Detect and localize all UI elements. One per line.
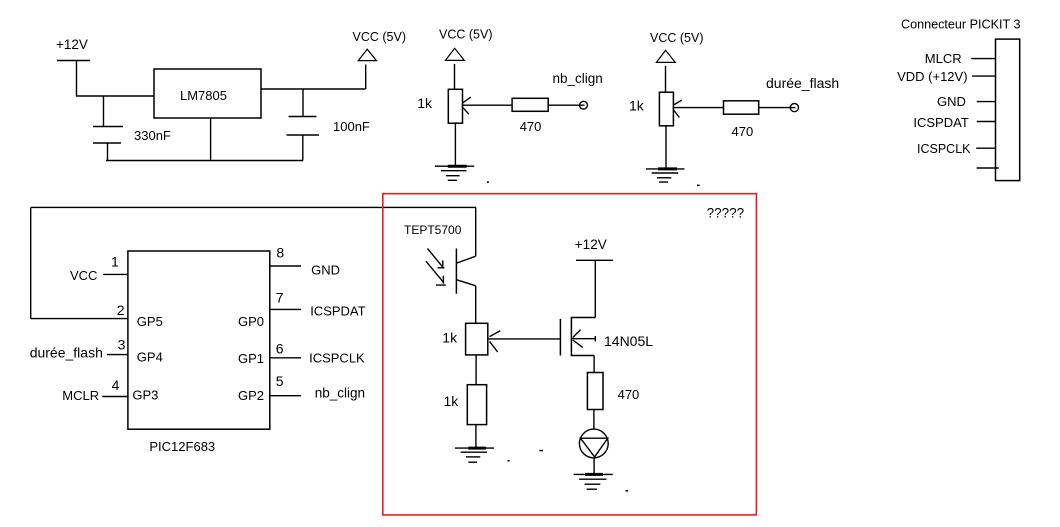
- ground symbol R6: [455, 448, 494, 462]
- R3 wiper arrow barb lower: [674, 110, 680, 118]
- R5 wiper arrow barb upper: [490, 331, 501, 337]
- svg-text:nb_clign: nb_clign: [315, 386, 365, 401]
- Q2 drain stub: [571, 317, 595, 319]
- svg-text:GND: GND: [937, 94, 966, 109]
- svg-text:GP5: GP5: [137, 314, 163, 329]
- transistor Q1 collector diagonal: [457, 256, 476, 263]
- svg-text:MLCR: MLCR: [925, 51, 962, 66]
- transistor Q2 gate bar: [559, 319, 561, 356]
- light arrow 1 head: [438, 260, 445, 268]
- LED D1 circle: [579, 429, 608, 458]
- pin VDD stub: [972, 75, 995, 77]
- wire pin2 GP5: [31, 318, 128, 320]
- capacitor C2 100nF bottom plate: [287, 134, 320, 136]
- svg-text:470: 470: [520, 119, 542, 134]
- svg-text:330nF: 330nF: [134, 128, 171, 143]
- svg-text:5: 5: [276, 373, 284, 389]
- resistor R7 470: [587, 373, 603, 410]
- svg-text:1k: 1k: [442, 330, 458, 346]
- wire R3 wiper to R4: [673, 107, 724, 109]
- svg-text:1k: 1k: [417, 95, 433, 111]
- transistor Q1 base bar: [455, 249, 457, 294]
- svg-text:MCLR: MCLR: [62, 388, 99, 403]
- pin ICSPDAT stub: [977, 121, 996, 123]
- svg-text:3: 3: [118, 337, 126, 353]
- svg-text:GND: GND: [311, 263, 340, 278]
- IC U1 PIC12F683 box: [128, 251, 270, 429]
- stray dot pot2: [697, 185, 700, 186]
- potentiometer R1 1k body: [448, 89, 462, 123]
- R1 wiper arrow barb upper: [463, 97, 471, 103]
- svg-text:GP1: GP1: [238, 351, 264, 366]
- wire VCC to R3: [665, 66, 667, 92]
- svg-text:ICSPDAT: ICSPDAT: [913, 115, 968, 130]
- svg-text:VCC (5V): VCC (5V): [439, 27, 492, 41]
- stray dot pot1: [487, 181, 489, 183]
- pin MLCR stub: [971, 58, 995, 60]
- pin 6 stub: [269, 357, 301, 359]
- pin 6 stub unlabeled: [977, 167, 999, 169]
- power symbol VCC triangle 3: [656, 50, 675, 62]
- wire VCC rail left vertical: [30, 207, 32, 318]
- pin 8 stub: [269, 265, 301, 267]
- wire VCC to R1: [454, 64, 456, 89]
- svg-text:GP4: GP4: [137, 350, 163, 365]
- svg-text:1k: 1k: [629, 97, 645, 113]
- svg-text:VCC: VCC: [70, 268, 97, 283]
- wire LED to ground: [593, 458, 595, 474]
- regulator U2 LM7805 box: [154, 69, 261, 118]
- svg-text:7: 7: [276, 290, 284, 306]
- wire R5 wiper to Q2 gate: [489, 338, 561, 340]
- wire +12V down: [76, 61, 78, 97]
- terminal duree_flash circle: [790, 104, 798, 112]
- ground rail wire: [106, 160, 303, 162]
- ground symbol pot2: [646, 169, 685, 182]
- capacitor C2 100nF top plate: [289, 116, 317, 118]
- wire C1 to ground rail: [107, 143, 109, 161]
- capacitor C1 330nF top plate: [93, 126, 123, 128]
- Q2 source stub: [571, 355, 594, 357]
- svg-text:470: 470: [618, 387, 640, 402]
- svg-text:ICSPCLK: ICSPCLK: [309, 351, 365, 366]
- stray dot gnd R6 a: [507, 460, 509, 462]
- connector J1 PICKIT3 box: [996, 39, 1020, 181]
- light arrow 2 head: [436, 276, 446, 285]
- pin 3 stub: [107, 354, 128, 356]
- svg-text:VCC (5V): VCC (5V): [650, 31, 703, 45]
- svg-text:?????: ?????: [707, 206, 745, 221]
- svg-text:100nF: 100nF: [333, 119, 370, 134]
- svg-text:14N05L: 14N05L: [604, 333, 653, 349]
- stray dot gnd LED: [626, 490, 629, 492]
- wire VCC rail top: [31, 206, 476, 208]
- LED D1 triangle: [581, 438, 608, 457]
- pin ICSPCLK stub: [976, 147, 995, 149]
- R5 wiper arrow barb lower: [490, 341, 498, 352]
- potentiometer R5 1k body: [466, 323, 488, 355]
- pin 4 stub: [102, 396, 128, 398]
- transistor Q2 channel bar: [570, 317, 572, 356]
- terminal nb_clign circle: [580, 101, 588, 109]
- power symbol VCC triangle 2: [445, 48, 464, 60]
- pin 1 stub: [103, 273, 128, 275]
- svg-text:1: 1: [111, 254, 119, 270]
- wire junction to C2: [302, 89, 304, 116]
- pin GND stub: [977, 101, 996, 103]
- wire R4 to terminal: [759, 107, 796, 109]
- wire LM7805 gnd pin: [210, 118, 212, 161]
- wire R3 to ground: [665, 126, 667, 169]
- svg-text:PIC12F683: PIC12F683: [149, 439, 215, 454]
- svg-text:GP3: GP3: [132, 388, 158, 403]
- wire Q2 drain vertical: [594, 260, 596, 317]
- svg-text:durée_flash: durée_flash: [766, 75, 839, 91]
- svg-text:nb_clign: nb_clign: [553, 71, 603, 86]
- light arrow 2 shaft: [426, 261, 444, 283]
- wire input node to LM7805: [76, 95, 154, 97]
- resistor R6 1k: [467, 385, 486, 425]
- transistor Q1 emitter diagonal: [457, 280, 476, 286]
- svg-text:4: 4: [112, 377, 120, 393]
- wire C2 to ground rail: [302, 135, 304, 161]
- pin 5 stub: [269, 395, 301, 397]
- R3 wiper arrow barb upper: [674, 100, 682, 105]
- wire junction to C1: [103, 96, 105, 126]
- svg-text:1k: 1k: [444, 393, 460, 409]
- potentiometer R3 1k body: [659, 92, 673, 126]
- wire R7 to LED: [593, 410, 595, 430]
- pin 7 stub: [269, 308, 301, 310]
- wire R1 to ground: [454, 123, 456, 166]
- wire emitter down: [475, 286, 477, 324]
- svg-text:ICSPCLK: ICSPCLK: [917, 142, 971, 156]
- svg-text:durée_flash: durée_flash: [30, 345, 103, 361]
- svg-text:VDD (+12V): VDD (+12V): [897, 69, 967, 84]
- svg-text:Connecteur PICKIT 3: Connecteur PICKIT 3: [901, 18, 1020, 32]
- wire R6 to ground: [475, 425, 477, 448]
- Q2 body stub end tick: [594, 336, 596, 342]
- svg-text:+12V: +12V: [56, 37, 88, 52]
- svg-text:LM7805: LM7805: [180, 88, 227, 103]
- svg-text:470: 470: [732, 124, 754, 139]
- wire Q2 source to R7: [593, 356, 595, 373]
- Q2 arrow barb upper: [573, 330, 581, 338]
- wire R5 to R6: [475, 355, 477, 385]
- power symbol VCC (5V) triangle 1: [358, 49, 376, 60]
- wire up to VCC symbol: [365, 65, 367, 90]
- Q2 body stub: [571, 338, 595, 340]
- svg-text:GP0: GP0: [238, 314, 264, 329]
- svg-text:8: 8: [276, 244, 284, 260]
- R1 wiper arrow barb lower: [463, 108, 469, 115]
- stray dash gnd R6 b: [540, 450, 544, 452]
- svg-text:2: 2: [117, 302, 125, 318]
- ground symbol LED: [574, 474, 613, 489]
- resistor R2 470: [512, 98, 548, 111]
- wire R1 wiper to R2: [462, 104, 513, 106]
- svg-text:+12V: +12V: [575, 237, 607, 252]
- ground symbol pot1: [435, 166, 474, 180]
- +12V supply bar mosfet: [576, 259, 613, 261]
- svg-text:TEPT5700: TEPT5700: [404, 223, 462, 237]
- wire collector drop: [475, 207, 477, 256]
- capacitor C1 330nF bottom plate: [93, 142, 121, 144]
- +12V supply bar: [57, 60, 90, 62]
- svg-text:GP2: GP2: [238, 388, 264, 403]
- red highlight box: [383, 194, 757, 515]
- svg-text:VCC (5V): VCC (5V): [353, 30, 406, 44]
- light arrow 1 shaft: [428, 249, 443, 268]
- Q2 arrow barb lower: [573, 340, 583, 347]
- wire R2 to terminal: [548, 104, 584, 106]
- resistor R4 470: [724, 101, 759, 114]
- svg-text:6: 6: [276, 341, 284, 357]
- wire LM7805 output: [261, 88, 366, 90]
- svg-text:ICSPDAT: ICSPDAT: [310, 304, 365, 319]
